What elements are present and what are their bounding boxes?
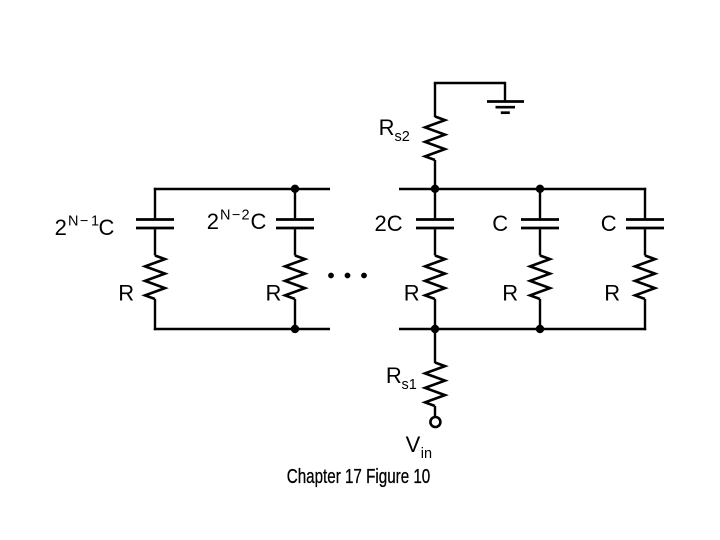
svg-text:R: R — [386, 363, 402, 388]
node junction bottom rail / branch3 — [431, 325, 439, 333]
svg-text:Chapter 17 Figure 10: Chapter 17 Figure 10 — [287, 465, 431, 488]
wire branch5 bottom lead — [644, 299, 646, 330]
wire Rs1 bottom lead — [434, 406, 436, 417]
node junction bottom rail / branch4 — [536, 325, 544, 333]
resistor R branch3 — [425, 256, 445, 300]
svg-text:−: − — [232, 208, 240, 224]
resistor Rs2 — [425, 117, 445, 161]
svg-text:2C: 2C — [375, 211, 403, 236]
wire ground drop — [504, 82, 506, 102]
svg-text:−: − — [80, 213, 88, 229]
svg-text:s2: s2 — [395, 129, 410, 145]
wire branch1 middle — [154, 229, 156, 255]
label Vin — [406, 432, 432, 462]
capacitor 2^(N-2)C — [276, 220, 314, 229]
wire Rs1 top vertical — [434, 328, 436, 363]
wire branch5 top lead — [644, 188, 646, 219]
resistor R branch4 — [530, 256, 550, 300]
ground — [487, 102, 524, 113]
wire branch1 bottom lead — [154, 299, 156, 330]
svg-text:C: C — [492, 211, 508, 236]
wire top rail left segment — [154, 188, 330, 190]
svg-text:N: N — [220, 208, 230, 224]
resistor R branch5 — [635, 256, 655, 300]
wire branch2 top lead — [294, 188, 296, 219]
label Rs2 — [379, 115, 410, 145]
svg-text:2: 2 — [55, 215, 67, 240]
wire Rs2 bottom lead — [434, 160, 436, 190]
node junction bottom rail / branch2 — [291, 325, 299, 333]
wire branch1 top lead — [154, 188, 156, 219]
label Rs1 — [386, 363, 417, 393]
svg-text:s1: s1 — [402, 377, 417, 393]
svg-text:C: C — [99, 215, 115, 240]
svg-text:R: R — [502, 281, 518, 306]
wire branch3 middle — [434, 229, 436, 255]
svg-text:R: R — [404, 281, 420, 306]
wire Rs2 top vertical — [434, 83, 436, 117]
wire branch4 bottom lead — [539, 299, 541, 330]
capacitor 2^(N-1)C — [136, 220, 174, 229]
wire branch2 bottom lead — [294, 299, 296, 330]
svg-text:2: 2 — [242, 208, 250, 224]
wire bottom rail left segment — [154, 328, 330, 330]
svg-text:C: C — [601, 211, 617, 236]
svg-text:N: N — [68, 213, 78, 229]
wire bottom rail right segment — [399, 328, 646, 330]
terminal Vin (open circle) — [430, 417, 440, 427]
svg-text:in: in — [421, 446, 432, 462]
wire branch2 middle — [294, 229, 296, 255]
resistor R branch1 — [145, 256, 165, 300]
resistor R branch2 — [285, 256, 305, 300]
node junction top rail / branch2 — [291, 185, 299, 193]
svg-text:2: 2 — [207, 209, 219, 234]
wire top rail right segment — [399, 188, 646, 190]
capacitor C branch4 — [521, 220, 559, 229]
wire top horizontal to ground — [434, 82, 505, 84]
wire branch5 middle — [644, 229, 646, 255]
capacitor C branch5 — [626, 220, 664, 229]
resistor Rs1 — [425, 363, 445, 407]
ellipsis dots — [328, 273, 367, 279]
svg-text:R: R — [266, 281, 282, 306]
capacitor 2C — [416, 220, 454, 229]
value label 2^(N-2)C — [207, 208, 267, 235]
svg-text:C: C — [251, 209, 267, 234]
svg-text:V: V — [406, 432, 421, 457]
wire branch4 top lead — [539, 188, 541, 219]
node junction top rail / branch4 — [536, 185, 544, 193]
node junction top rail / branch3 — [431, 185, 439, 193]
svg-text:R: R — [379, 115, 395, 140]
value label 2^(N-1)C — [55, 213, 115, 240]
wire branch3 bottom lead — [434, 299, 436, 330]
wire branch3 top lead — [434, 188, 436, 219]
svg-text:R: R — [604, 281, 620, 306]
svg-text:R: R — [118, 281, 134, 306]
wire branch4 middle — [539, 229, 541, 255]
